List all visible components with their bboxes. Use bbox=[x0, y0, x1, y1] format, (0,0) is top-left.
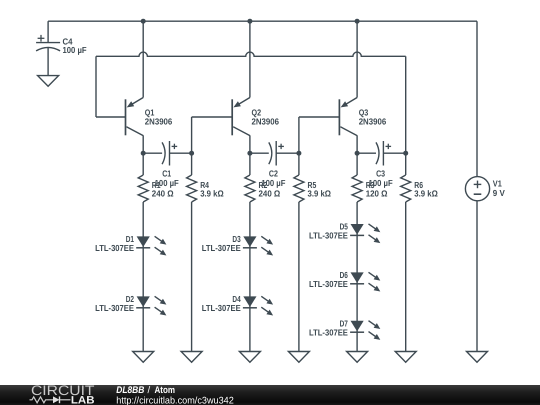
svg-text:/: / bbox=[148, 385, 151, 396]
svg-text:3.9 kΩ: 3.9 kΩ bbox=[414, 189, 438, 199]
svg-text:3.9 kΩ: 3.9 kΩ bbox=[308, 189, 332, 199]
svg-text:LTL-307EE: LTL-307EE bbox=[202, 303, 241, 313]
svg-text:240 Ω: 240 Ω bbox=[152, 189, 174, 199]
svg-text:2N3906: 2N3906 bbox=[252, 117, 280, 127]
svg-text:LTL-307EE: LTL-307EE bbox=[309, 328, 348, 338]
svg-text:LTL-307EE: LTL-307EE bbox=[95, 303, 134, 313]
svg-text:2N3906: 2N3906 bbox=[145, 117, 173, 127]
svg-text:C2: C2 bbox=[269, 168, 278, 178]
svg-text:http://circuitlab.com/c3wu342: http://circuitlab.com/c3wu342 bbox=[116, 395, 234, 405]
svg-text:100 µF: 100 µF bbox=[63, 45, 88, 55]
svg-text:3.9 kΩ: 3.9 kΩ bbox=[200, 189, 224, 199]
svg-text:C3: C3 bbox=[376, 168, 385, 178]
svg-text:C1: C1 bbox=[162, 168, 171, 178]
svg-text:Atom: Atom bbox=[155, 385, 176, 396]
svg-text:DL8BB: DL8BB bbox=[116, 385, 144, 396]
svg-text:240 Ω: 240 Ω bbox=[259, 189, 281, 199]
svg-text:LTL-307EE: LTL-307EE bbox=[309, 279, 348, 289]
svg-text:LAB: LAB bbox=[71, 394, 95, 405]
svg-text:120 Ω: 120 Ω bbox=[366, 189, 388, 199]
svg-text:LTL-307EE: LTL-307EE bbox=[309, 231, 348, 241]
svg-text:LTL-307EE: LTL-307EE bbox=[202, 243, 241, 253]
svg-text:2N3906: 2N3906 bbox=[359, 117, 387, 127]
svg-text:LTL-307EE: LTL-307EE bbox=[95, 243, 134, 253]
svg-text:9 V: 9 V bbox=[493, 188, 505, 198]
